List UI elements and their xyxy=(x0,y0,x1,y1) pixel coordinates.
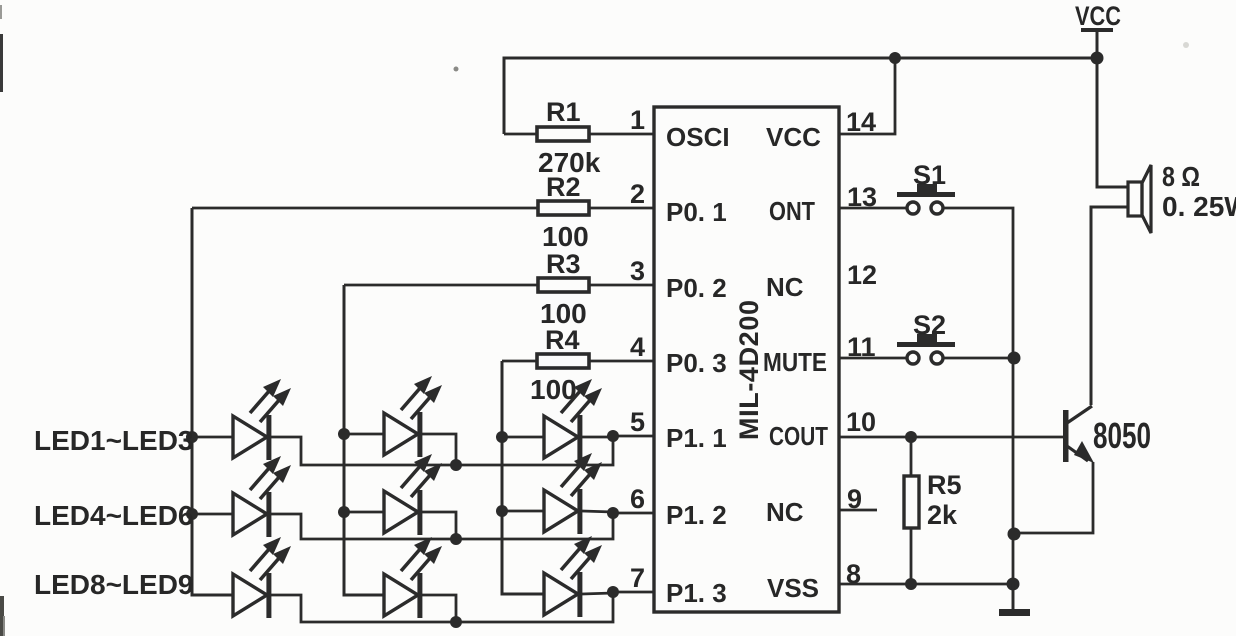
wire: LED2 anode xyxy=(344,433,384,436)
svg-text:3: 3 xyxy=(630,256,645,286)
switch S1 xyxy=(897,184,955,214)
node: pin5 junction xyxy=(607,430,619,442)
power VCC symbol xyxy=(1075,1,1121,58)
svg-text:LED8~LED9: LED8~LED9 xyxy=(34,569,194,600)
node: emitter return junction xyxy=(1008,528,1021,541)
svg-text:10: 10 xyxy=(846,407,876,437)
node: R5 top junction xyxy=(905,431,917,443)
node: ground bus pin8 junction xyxy=(1007,578,1020,591)
svg-text:100: 100 xyxy=(542,221,589,252)
wire: LED6 anode xyxy=(502,510,544,513)
svg-text:7: 7 xyxy=(630,563,645,593)
wire: VCC down to speaker xyxy=(1097,58,1129,187)
wire: pin 10 to transistor base xyxy=(839,436,1064,439)
svg-text:R4: R4 xyxy=(545,325,580,355)
svg-text:0. 25W: 0. 25W xyxy=(1162,191,1236,222)
ground xyxy=(999,584,1030,616)
svg-text:NC: NC xyxy=(766,497,804,527)
wire: R1 right lead to pin 1 xyxy=(588,133,654,136)
node: R5 bottom junction xyxy=(905,578,917,590)
svg-text:1: 1 xyxy=(630,105,645,135)
node: pin14 rail junction xyxy=(889,52,901,64)
wire: row 2 cathode col 3 to pin 6 xyxy=(582,511,613,512)
svg-text:LED4~LED6: LED4~LED6 xyxy=(34,500,194,531)
svg-text:MIL-4D200: MIL-4D200 xyxy=(734,300,764,440)
wire: pin 8 VSS to ground bus xyxy=(839,583,1014,586)
svg-text:8050: 8050 xyxy=(1093,415,1151,456)
node: col3 row1 junction xyxy=(496,431,508,443)
svg-text:P0. 2: P0. 2 xyxy=(666,273,727,303)
wire: LED column 1 vertical bus xyxy=(192,208,233,595)
wire: LED4 anode xyxy=(192,513,233,516)
node: row3 bus junction xyxy=(450,616,462,628)
wire: R2 right lead to pin 2 xyxy=(588,207,654,210)
svg-text:4: 4 xyxy=(630,332,645,362)
wire: S1 to right bus xyxy=(943,208,1013,358)
svg-text:P1. 2: P1. 2 xyxy=(666,500,727,530)
wire: row 1 cathode step col 1 xyxy=(271,436,613,465)
svg-text:P1. 3: P1. 3 xyxy=(666,578,727,608)
wire: top feedback loop from R1 to VCC rail xyxy=(504,58,1097,134)
wire: R5 top lead xyxy=(910,437,913,477)
LED D5 xyxy=(384,454,442,535)
wire: pin 3 line to LED column 2 xyxy=(344,284,538,287)
svg-text:LED1~LED3: LED1~LED3 xyxy=(34,425,194,456)
node: col2 row1 junction xyxy=(338,428,350,440)
node: col2 row2 junction xyxy=(338,506,350,518)
node: col1 row2 junction xyxy=(186,508,198,520)
node: pin6 junction xyxy=(607,507,619,519)
svg-text:P1. 1: P1. 1 xyxy=(666,423,727,453)
node: col1 row1 junction xyxy=(186,431,198,443)
svg-text:OSCI: OSCI xyxy=(666,122,730,152)
wire: LED column 3 vertical bus xyxy=(502,361,544,594)
scan artifact left edge top xyxy=(0,34,3,92)
LED D7 xyxy=(233,537,291,618)
wire: row 1 cathode step col 2 xyxy=(422,434,456,465)
wire: pin 14 to VCC rail xyxy=(839,58,895,134)
wire: row 2 cathode step col 2 xyxy=(422,512,456,539)
speaker BL xyxy=(1128,165,1151,233)
wire: R4 left lead to LED column 3 riser xyxy=(502,360,538,363)
svg-text:VCC: VCC xyxy=(766,122,821,152)
svg-text:6: 6 xyxy=(630,484,645,514)
wire: row 3 cathode step col 2 xyxy=(422,595,456,622)
wire: right bus down to ground xyxy=(1012,358,1015,610)
svg-text:ONT: ONT xyxy=(769,196,815,226)
svg-text:14: 14 xyxy=(846,107,876,137)
node: col3 row2 junction xyxy=(496,505,508,517)
wire: speaker bottom terminal to collector xyxy=(1091,207,1129,405)
wire: LED5 anode xyxy=(344,511,384,514)
node: VCC rail junction xyxy=(1091,52,1104,65)
svg-text:S1: S1 xyxy=(913,160,946,190)
wire: row 1 cathode col 3 to pin 5 xyxy=(582,436,613,439)
svg-text:MUTE: MUTE xyxy=(763,347,827,377)
wire: pin 11 to S2 xyxy=(839,357,907,360)
node: pin7 junction xyxy=(607,586,619,598)
switch S2 xyxy=(897,334,955,364)
wire: pin 7 lead xyxy=(613,591,654,594)
node: row2 bus junction xyxy=(450,533,462,545)
svg-text:R1: R1 xyxy=(546,97,581,127)
svg-text:P0. 1: P0. 1 xyxy=(666,197,727,227)
LED D6 xyxy=(544,453,602,534)
LED D4 xyxy=(233,456,291,537)
wire: pin 6 lead xyxy=(613,512,654,515)
wire: R1 left lead xyxy=(504,133,538,136)
wire: R4 right lead to pin 4 xyxy=(588,360,654,363)
resistor R1 xyxy=(537,127,589,141)
wire: emitter down and back to ground bus xyxy=(1014,462,1093,533)
LED D3 xyxy=(544,379,602,460)
svg-text:NC: NC xyxy=(766,272,804,302)
resistor R5 xyxy=(904,476,919,528)
svg-text:VSS: VSS xyxy=(767,573,819,603)
svg-text:2k: 2k xyxy=(927,500,958,530)
node: S2 bus junction xyxy=(1008,352,1021,365)
wire: row 3 cathode col 3 to pin 7 xyxy=(582,593,613,594)
wire: R3 right lead to pin 3 xyxy=(588,284,654,287)
wire: S2 to right bus xyxy=(943,357,1014,360)
wire: row 3 cathode step col 1 xyxy=(271,592,613,622)
svg-text:R5: R5 xyxy=(927,470,962,500)
scan artifact left edge bottom xyxy=(0,596,4,636)
wire: row 2 cathode step col 1 xyxy=(271,513,613,539)
LED D8 xyxy=(384,537,442,618)
wire: pin 9 stub xyxy=(839,509,877,512)
wire: LED3 anode xyxy=(502,436,544,439)
resistor R3 xyxy=(538,278,589,292)
svg-text:S2: S2 xyxy=(913,310,946,340)
node: row1 bus junction xyxy=(450,459,462,471)
LED D2 xyxy=(384,376,442,457)
resistor R2 xyxy=(538,201,589,215)
svg-text:R2: R2 xyxy=(546,172,581,202)
wire: LED column 2 vertical bus xyxy=(344,285,384,595)
wire: pin 13 to S1 xyxy=(839,207,907,210)
LED D9 xyxy=(544,536,602,617)
transistor Q1 8050 xyxy=(1063,406,1094,463)
IC U1 MIL-4D200 box xyxy=(654,107,839,612)
svg-text:8 Ω: 8 Ω xyxy=(1162,161,1200,192)
svg-text:R3: R3 xyxy=(546,249,581,279)
svg-text:COUT: COUT xyxy=(769,421,828,451)
svg-text:VCC: VCC xyxy=(1075,1,1121,31)
resistor R4 xyxy=(537,354,589,368)
wire: pin 5 lead xyxy=(613,435,654,438)
wire: R5 bottom lead xyxy=(910,528,913,584)
svg-text:P0. 3: P0. 3 xyxy=(666,348,727,378)
svg-text:2: 2 xyxy=(630,179,645,209)
wire: pin 2 line to LED column 1 xyxy=(192,207,538,210)
wire: LED1 anode xyxy=(192,436,233,439)
svg-text:5: 5 xyxy=(630,407,645,437)
LED D1 xyxy=(233,379,291,460)
svg-text:12: 12 xyxy=(847,260,877,290)
